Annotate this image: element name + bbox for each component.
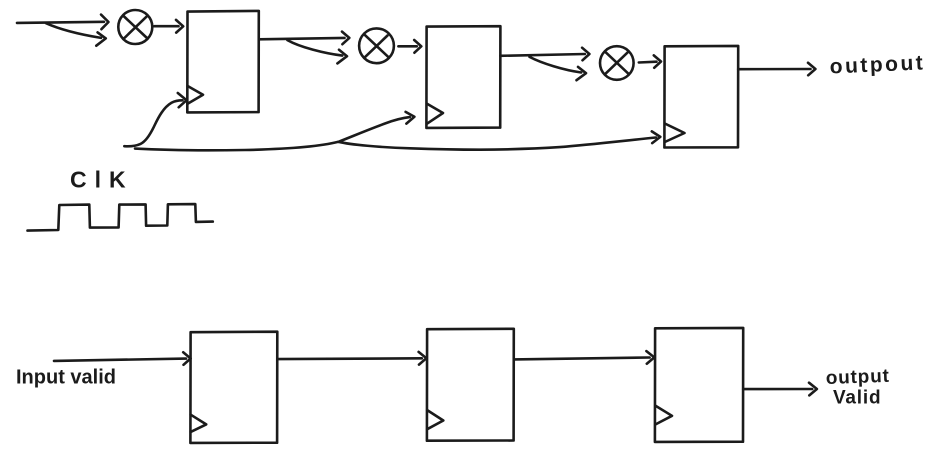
wire register R3 to output [738, 63, 815, 76]
multiplier M1 [118, 10, 152, 44]
register R4 clock pin [191, 415, 207, 432]
register R1 clock pin [188, 86, 203, 104]
wire input B branch to multiplier M1 [46, 23, 106, 46]
flip-flop register R3 [664, 46, 738, 148]
wire register R2 output branch to multiplier M3 [530, 57, 587, 80]
wire CLK branch to register R2 clock [339, 112, 415, 142]
wire Input valid to register R4 [54, 352, 191, 365]
wire register R2 output to multiplier M3 [500, 48, 589, 61]
svg-text:outpout: outpout [829, 51, 926, 78]
wire CLK branch to register R1 clock [124, 93, 186, 146]
wire CLK net main run [135, 131, 660, 150]
wire register R1 output to multiplier M2 [259, 32, 350, 45]
register R2 clock pin [427, 104, 443, 124]
wire multiplier M3 to register R3 [639, 55, 661, 67]
flip-flop register R6 [655, 328, 743, 442]
multiplier M2 [359, 28, 394, 63]
wire register R5 to register R6 [514, 351, 655, 364]
multiplier M3 [600, 46, 634, 80]
svg-text:Input valid: Input valid [16, 367, 116, 389]
svg-text:output: output [825, 366, 890, 389]
wire multiplier M1 to register R1 [154, 20, 183, 33]
flip-flop register R5 [427, 329, 514, 441]
wire register R1 output branch to multiplier M2 [287, 40, 347, 63]
svg-text:ClK: ClK [70, 167, 134, 193]
flip-flop register R1 [187, 11, 258, 113]
wire register R6 to output valid [743, 383, 817, 396]
wire input A to multiplier M1 [17, 15, 109, 30]
register R3 clock pin [665, 124, 685, 143]
wire multiplier M2 to register R2 [398, 40, 421, 53]
register R5 clock pin [427, 410, 443, 429]
register R6 clock pin [655, 406, 672, 425]
CLK waveform [28, 204, 213, 231]
flip-flop register R2 [426, 26, 500, 128]
svg-text:Valid: Valid [833, 388, 881, 409]
node output Valid label [825, 366, 890, 409]
flip-flop register R4 [190, 332, 277, 443]
wire register R4 to register R5 [277, 352, 426, 365]
